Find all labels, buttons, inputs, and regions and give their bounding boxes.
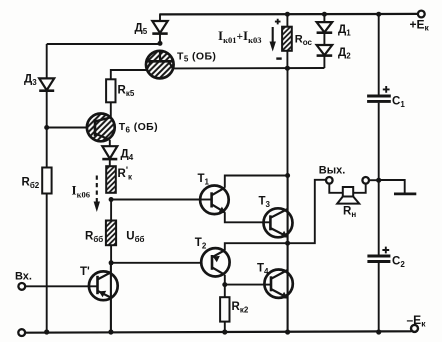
svg-text:Rк2: Rк2 [232, 301, 249, 315]
node C2 bottom rail [376, 329, 381, 334]
wire node to ground [379, 180, 405, 194]
svg-text:Uбб: Uбб [126, 231, 144, 245]
svg-text:Rн: Rн [343, 206, 356, 220]
wire node down to Rk2 [224, 285, 226, 298]
svg-text:Rбб: Rбб [85, 231, 103, 245]
wire node to T4 base [225, 284, 265, 286]
transistor T3 [259, 176, 293, 244]
node Roc bottom / T5 right [285, 66, 290, 71]
node C1 top on rail [376, 12, 381, 17]
svg-text:Т': Т' [80, 266, 90, 278]
wire T5 right lead to node and D2 branch [173, 67, 325, 69]
wire node down to T1/T3 node [287, 68, 289, 175]
resistor R'k (hatched) [106, 165, 133, 193]
capacitor C1 [367, 14, 405, 180]
svg-text:Т6 (ОБ): Т6 (ОБ) [119, 121, 158, 134]
node Rb2 bottom rail [44, 329, 49, 334]
wire T1 collector up and right [225, 176, 288, 188]
current arrow Ik01+Ik03 [218, 27, 276, 52]
node D1 top on rail [322, 12, 327, 17]
node T' emitter bottom rail [108, 329, 113, 334]
wire left column down to D3 [46, 44, 48, 78]
wire Rk2 to bottom rail [224, 322, 226, 332]
node T2 collector / T4 base / Rk2 [222, 282, 227, 287]
svg-text:Т1: Т1 [198, 173, 210, 187]
svg-text:Т3: Т3 [259, 196, 271, 210]
resistor Rk2 [220, 297, 249, 321]
terminal +Ek [410, 11, 430, 33]
wire Rb2 to bottom rail [46, 194, 48, 333]
terminal Vyx (output) [319, 165, 369, 184]
resistor Roc (hatched) [275, 19, 313, 59]
diode D1 [317, 14, 352, 37]
transistor T2 [195, 237, 230, 277]
wire rail to Roc [286, 14, 288, 27]
svg-text:Iк06: Iк06 [72, 183, 90, 200]
wire output node to speaker riser [288, 180, 326, 243]
node output (T3 emitter / T4 collector / T2 emitter) [285, 241, 290, 246]
svg-text:Д1: Д1 [338, 24, 351, 38]
svg-text:C2: C2 [392, 256, 405, 270]
svg-text:Iк01+Iк03: Iк01+Iк03 [218, 28, 262, 45]
svg-text:Т2: Т2 [195, 237, 207, 251]
speaker Rn [329, 184, 365, 219]
node top rail / Roc [285, 12, 290, 17]
node R'k bottom / T1 base [109, 197, 114, 202]
terminal bottom-left [18, 329, 25, 336]
wire input to T' base [25, 285, 97, 287]
node T1/T3 collectors [285, 173, 290, 178]
ground [394, 193, 416, 196]
terminal -Ek [407, 313, 427, 332]
diode D5 [135, 14, 168, 43]
wire node to T1 base [111, 199, 212, 201]
transistor T5 (hatched, common-base) [146, 51, 216, 79]
wire node down to Rbb [110, 200, 112, 221]
svg-text:Вых.: Вых. [319, 165, 346, 177]
svg-text:–Eк: –Eк [407, 313, 427, 329]
wire bottom rail [25, 331, 412, 332]
node C1/C2 column at output [376, 178, 381, 183]
svg-text:R'к: R'к [118, 165, 133, 182]
diode D4 [102, 140, 133, 166]
wire Roc to node [286, 51, 288, 68]
svg-text:Т5 (ОБ): Т5 (ОБ) [177, 51, 216, 64]
svg-text:+Eк: +Eк [410, 18, 430, 33]
svg-text:Rос: Rос [295, 34, 313, 48]
svg-text:Rб2: Rб2 [22, 177, 40, 191]
svg-text:Т4: Т4 [257, 263, 269, 277]
wire node to T6 base [47, 127, 88, 129]
node Rk2 bottom rail [222, 329, 227, 334]
resistor Rb2 [22, 168, 52, 194]
wire T2 emitter up and right to output node [225, 243, 288, 250]
wire T1 emitter to T3 base [225, 212, 264, 222]
svg-text:C1: C1 [392, 96, 405, 110]
node T4 emitter bottom rail [285, 329, 290, 334]
diode D3 [24, 74, 54, 128]
wire from D5 node to left column [47, 43, 160, 45]
transistor T4 [257, 243, 293, 332]
resistor Rk5 [106, 79, 135, 102]
wire right output terminal to C1 column [369, 179, 379, 181]
diode D2 [317, 33, 352, 68]
wire top rail [159, 13, 418, 16]
wire T2 collector down to node [224, 275, 226, 285]
resistor Rbb (hatched) [85, 221, 145, 246]
current arrow Ik06 (dashed) [72, 176, 101, 213]
svg-text:Rк5: Rк5 [118, 85, 135, 99]
svg-text:Д5: Д5 [135, 23, 148, 37]
wire Rbb to node [110, 245, 112, 263]
wire node to T2 base [111, 262, 212, 264]
wire node down to Rb2 [46, 128, 48, 168]
transistor T1 [198, 173, 229, 214]
transistor T' [80, 263, 118, 332]
transistor T6 (hatched, common-base) [87, 114, 158, 142]
wire T5 left lead to Rk5 [111, 70, 147, 79]
wire Rk5 to T6 collector [110, 102, 112, 118]
terminal Vx (input) [15, 271, 32, 290]
svg-text:Д3: Д3 [24, 74, 37, 88]
node under D5 [158, 41, 163, 46]
svg-text:Д2: Д2 [338, 47, 351, 61]
node Rbb bottom / T2 base / T' collector [109, 260, 114, 265]
capacitor C2 [367, 180, 405, 332]
svg-text:Вх.: Вх. [15, 271, 32, 283]
svg-text:Д4: Д4 [121, 149, 134, 163]
node D3 / T6 base [44, 125, 49, 130]
